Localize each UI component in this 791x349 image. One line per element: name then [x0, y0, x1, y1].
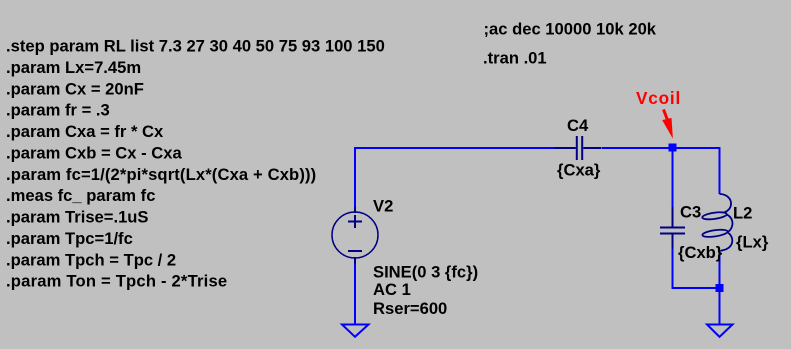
- svg-text:.param Trise=.1uS: .param Trise=.1uS: [6, 208, 149, 227]
- svg-text:.param Cxa = fr * Cx: .param Cxa = fr * Cx: [6, 122, 164, 141]
- svg-text:AC 1: AC 1: [373, 280, 411, 299]
- svg-text:;ac dec 10000 10k 20k: ;ac dec 10000 10k 20k: [484, 20, 657, 39]
- wire top horizontal left of C4: [354, 147, 558, 149]
- capacitor C4: [555, 136, 602, 160]
- svg-text:.param Ton = Tpch - 2*Trise: .param Ton = Tpch - 2*Trise: [6, 272, 227, 291]
- inductor L2: [702, 194, 733, 251]
- voltage source V2: [332, 207, 378, 264]
- node A junction square: [669, 144, 677, 152]
- capacitor C3: [660, 207, 685, 249]
- ground right: [707, 325, 733, 337]
- wire C4 to node A: [602, 147, 672, 149]
- svg-text:C3: C3: [680, 203, 701, 222]
- wire V2 top to corner: [354, 148, 356, 213]
- svg-text:.param Cx = 20nF: .param Cx = 20nF: [6, 79, 144, 98]
- svg-text:V2: V2: [373, 197, 393, 216]
- svg-text:Rser=600: Rser=600: [373, 299, 447, 318]
- wire node A to right corner: [672, 148, 720, 194]
- svg-text:.param Cxb = Cx - Cxa: .param Cxb = Cx - Cxa: [6, 143, 182, 162]
- wire node A down to C3: [672, 148, 674, 207]
- svg-text:C4: C4: [567, 116, 589, 135]
- node B junction square: [716, 284, 724, 292]
- svg-text:.meas fc_ param fc: .meas fc_ param fc: [6, 186, 155, 205]
- wire L2 bottom: [719, 251, 721, 289]
- svg-text:{Lx}: {Lx}: [736, 233, 769, 252]
- svg-text:SINE(0 3 {fc}): SINE(0 3 {fc}): [373, 263, 478, 282]
- annotation arrow: [664, 110, 668, 121]
- svg-text:{Cxa}: {Cxa}: [557, 161, 601, 180]
- svg-text:.param fr = .3: .param fr = .3: [6, 101, 110, 120]
- svg-text:{Cxb}: {Cxb}: [678, 243, 723, 262]
- svg-text:Vcoil: Vcoil: [636, 88, 681, 108]
- svg-text:L2: L2: [733, 204, 752, 223]
- svg-text:.param Tpch = Tpc / 2: .param Tpch = Tpc / 2: [6, 250, 176, 269]
- wire bottom horizontal: [672, 287, 720, 289]
- svg-text:.step param RL list 7.3 27 30: .step param RL list 7.3 27 30 40 50 75 9…: [6, 37, 385, 56]
- svg-text:.tran .01: .tran .01: [483, 49, 547, 68]
- ground left: [342, 325, 369, 337]
- wire C3 to bottom: [672, 248, 674, 288]
- svg-text:.param Tpc=1/fc: .param Tpc=1/fc: [6, 229, 133, 248]
- svg-text:.param fc=1/(2*pi*sqrt(Lx*(Cxa: .param fc=1/(2*pi*sqrt(Lx*(Cxa + Cxb))): [6, 165, 316, 184]
- svg-text:.param Lx=7.45m: .param Lx=7.45m: [6, 58, 141, 77]
- wire to right ground: [719, 288, 721, 325]
- wire V2 bottom to left ground: [354, 257, 356, 325]
